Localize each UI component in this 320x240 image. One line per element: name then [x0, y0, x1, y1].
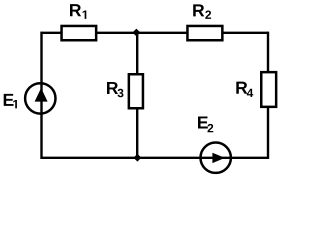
- label E2: [198, 116, 213, 132]
- resistor R2: [187, 26, 222, 40]
- label R4: [236, 82, 253, 97]
- wire top: [42, 32, 269, 34]
- resistor R4: [261, 72, 276, 107]
- arrow of source E2 (right): [212, 153, 225, 163]
- current source E2 (circle): [201, 143, 231, 173]
- resistor R3: [129, 74, 143, 108]
- label R1: [70, 4, 86, 19]
- wire middle: [136, 33, 138, 158]
- label E1: [4, 94, 17, 109]
- wire right: [267, 32, 269, 159]
- label R2: [193, 4, 211, 18]
- junction node bottom: [134, 154, 142, 162]
- current source E1 (circle): [25, 83, 55, 113]
- resistor R1: [62, 26, 97, 40]
- wire left: [40, 32, 42, 159]
- arrow of source E1 (up): [35, 88, 48, 102]
- wire bottom: [42, 157, 269, 159]
- label R3: [107, 82, 123, 97]
- junction node top: [133, 29, 141, 37]
